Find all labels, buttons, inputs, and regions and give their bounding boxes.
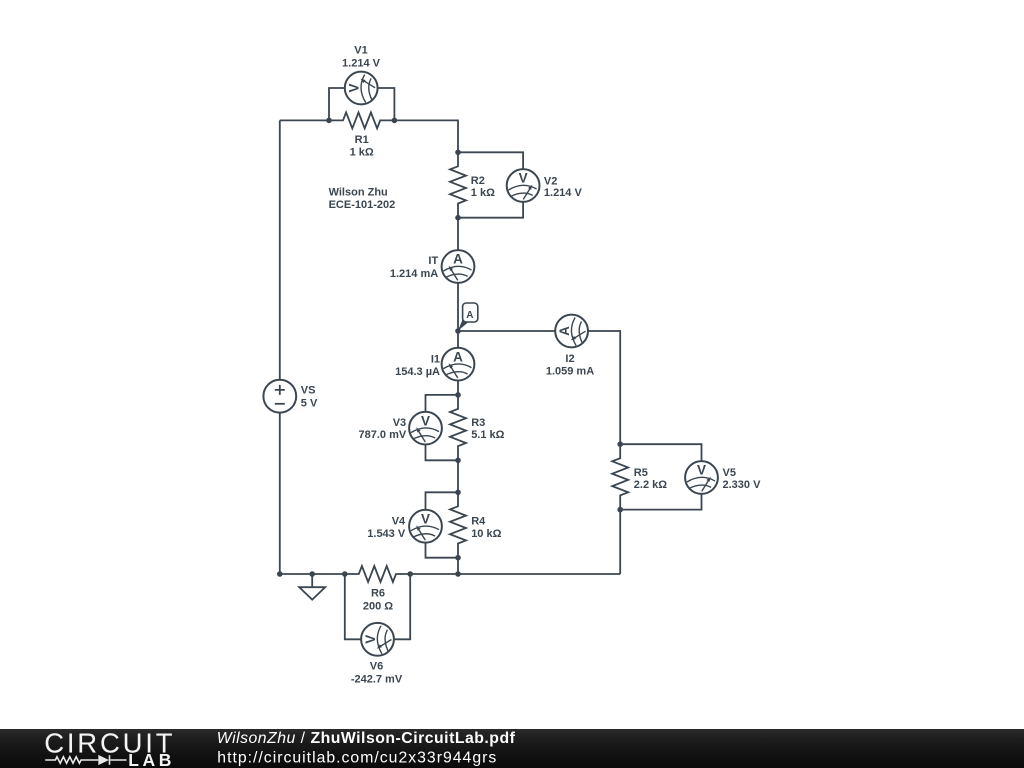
svg-text:-242.7 mV: -242.7 mV bbox=[351, 673, 403, 685]
svg-text:154.3 µA: 154.3 µA bbox=[395, 366, 440, 378]
svg-text:5 V: 5 V bbox=[301, 397, 318, 409]
wire: left rail upper bbox=[279, 120, 281, 379]
ammeter IT bbox=[442, 250, 475, 283]
wire: V1 parallel loop right bbox=[378, 88, 395, 120]
svg-text:Wilson Zhu: Wilson Zhu bbox=[329, 187, 388, 199]
svg-text:http://circuitlab.com/cu2x33r9: http://circuitlab.com/cu2x33r944grs bbox=[217, 749, 497, 766]
wire: R1 right to vertical branch bbox=[394, 120, 458, 152]
ammeter I1 bbox=[442, 348, 475, 381]
svg-text:V: V bbox=[421, 413, 430, 428]
wire: V5 parallel loop top bbox=[620, 444, 701, 461]
ground symbol bbox=[299, 574, 325, 600]
junction node ground bbox=[309, 571, 315, 577]
wire: bottom rail right bbox=[410, 573, 620, 575]
resistor R2 bbox=[450, 152, 466, 218]
svg-text:V: V bbox=[346, 83, 361, 92]
svg-text:1 kΩ: 1 kΩ bbox=[350, 146, 374, 158]
voltage source VS bbox=[263, 380, 296, 413]
svg-text:5.1 kΩ: 5.1 kΩ bbox=[471, 429, 504, 441]
ammeter I2 bbox=[555, 315, 588, 348]
junction node R6 right bbox=[407, 571, 413, 577]
svg-text:1.543 V: 1.543 V bbox=[367, 528, 406, 540]
svg-text:V: V bbox=[519, 171, 528, 186]
svg-text:2.330 V: 2.330 V bbox=[723, 479, 762, 491]
junction node bottom-left corner bbox=[277, 571, 283, 577]
svg-text:I2: I2 bbox=[565, 353, 574, 365]
resistor R4 bbox=[450, 492, 466, 558]
svg-text:VS: VS bbox=[301, 385, 316, 397]
voltmeter V1 bbox=[345, 72, 378, 105]
svg-text:1.214 V: 1.214 V bbox=[342, 57, 381, 69]
svg-text:200 Ω: 200 Ω bbox=[363, 600, 393, 612]
wire: R4 bottom to bottom rail bbox=[457, 558, 459, 574]
resistor R6 bbox=[345, 566, 411, 582]
svg-text:A: A bbox=[453, 252, 463, 267]
svg-text:1.214 V: 1.214 V bbox=[544, 187, 583, 199]
svg-text:ECE-101-202: ECE-101-202 bbox=[329, 199, 396, 211]
voltmeter V5 bbox=[685, 461, 718, 494]
junction node R1 left bbox=[326, 118, 332, 124]
svg-text:787.0 mV: 787.0 mV bbox=[358, 429, 406, 441]
junction node R4 bottom bbox=[455, 555, 461, 561]
junction node R3 bottom bbox=[455, 458, 461, 464]
wire: V3 parallel loop bottom bbox=[426, 445, 459, 461]
svg-text:R5: R5 bbox=[634, 467, 648, 479]
resistor R3 bbox=[450, 395, 466, 461]
svg-text:R3: R3 bbox=[471, 417, 485, 429]
svg-text:A: A bbox=[453, 349, 463, 364]
junction node R5 top bbox=[617, 441, 623, 447]
wire: V4 parallel loop bottom bbox=[426, 543, 459, 558]
wire: V3 parallel loop top bbox=[426, 395, 459, 412]
junction node A bbox=[455, 328, 461, 334]
junction node R1 right bbox=[392, 118, 398, 124]
wire: V6 parallel loop left bbox=[345, 574, 361, 639]
svg-text:V: V bbox=[421, 511, 430, 526]
svg-text:A: A bbox=[466, 310, 473, 321]
svg-text:V: V bbox=[697, 463, 706, 478]
wire: V6 parallel loop right bbox=[394, 574, 410, 639]
svg-text:V4: V4 bbox=[392, 515, 406, 527]
svg-text:V5: V5 bbox=[723, 467, 736, 479]
voltmeter V3 bbox=[409, 412, 442, 445]
junction node R2 top bbox=[455, 150, 461, 156]
svg-text:R6: R6 bbox=[371, 588, 385, 600]
svg-text:V3: V3 bbox=[393, 417, 406, 429]
wire: R5 bottom to bottom rail bbox=[619, 510, 621, 574]
voltmeter V6 bbox=[361, 623, 394, 656]
wire: IT bottom through node A to ammeter I1 bbox=[457, 283, 459, 348]
svg-text:R4: R4 bbox=[471, 515, 486, 527]
svg-text:LAB: LAB bbox=[128, 750, 175, 768]
wire: R2 bottom to ammeter IT bbox=[457, 218, 459, 251]
wire: V4 parallel loop top bbox=[426, 492, 459, 510]
wire: node A to ammeter I2 bbox=[458, 330, 555, 332]
resistor R1 bbox=[329, 112, 395, 128]
svg-text:V1: V1 bbox=[354, 45, 367, 57]
voltmeter V4 bbox=[409, 510, 442, 543]
CircuitLab logo resistor-diode art bbox=[45, 755, 126, 765]
junction node R6 left bbox=[342, 571, 348, 577]
wire: I2 to R5 branch bbox=[588, 331, 620, 444]
wire: V2 parallel loop top bbox=[458, 152, 523, 169]
svg-text:R2: R2 bbox=[471, 175, 485, 187]
wire: top rail from left rail to R1 bbox=[280, 119, 329, 121]
svg-text:WilsonZhu / ZhuWilson-CircuitL: WilsonZhu / ZhuWilson-CircuitLab.pdf bbox=[217, 730, 516, 747]
wire: V2 parallel loop bottom bbox=[458, 202, 523, 218]
svg-text:V6: V6 bbox=[370, 661, 383, 673]
svg-text:V2: V2 bbox=[544, 175, 557, 187]
svg-text:1.214 mA: 1.214 mA bbox=[390, 268, 438, 280]
wire: left rail lower bbox=[279, 413, 281, 574]
wire: I1 bottom to R3 bbox=[457, 381, 459, 395]
node A name tag bbox=[458, 303, 478, 331]
junction node R4 top bbox=[455, 490, 461, 496]
junction node R4 branch at bottom rail bbox=[455, 571, 461, 577]
svg-text:2.2 kΩ: 2.2 kΩ bbox=[634, 479, 667, 491]
svg-text:R1: R1 bbox=[355, 134, 369, 146]
wire: R3 bottom to R4 top bbox=[457, 460, 459, 492]
junction node R5 bottom bbox=[617, 507, 623, 513]
wire: bottom rail left bbox=[280, 573, 345, 575]
wire: V1 parallel loop left bbox=[329, 88, 345, 120]
svg-text:A: A bbox=[557, 326, 572, 336]
voltmeter V2 bbox=[507, 169, 540, 202]
svg-text:V: V bbox=[363, 635, 378, 644]
resistor R5 bbox=[612, 444, 628, 510]
junction node R3 top bbox=[455, 392, 461, 398]
svg-text:IT: IT bbox=[428, 255, 438, 267]
wire: V5 parallel loop bottom bbox=[620, 494, 701, 510]
svg-text:10 kΩ: 10 kΩ bbox=[471, 528, 501, 540]
svg-text:I1: I1 bbox=[431, 354, 440, 366]
svg-text:1.059 mA: 1.059 mA bbox=[546, 366, 594, 378]
junction node R2 bottom bbox=[455, 215, 461, 221]
svg-text:1 kΩ: 1 kΩ bbox=[471, 187, 495, 199]
